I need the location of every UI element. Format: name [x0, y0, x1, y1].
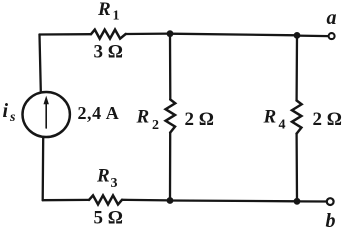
current source is [23, 92, 70, 137]
node junction top of R4 [294, 32, 301, 39]
svg-text:R: R [136, 107, 150, 128]
node junction bottom of R4 [294, 198, 301, 205]
svg-text:2 Ω: 2 Ω [185, 109, 214, 130]
wire top-right segment [170, 34, 297, 36]
svg-text:1: 1 [113, 9, 120, 24]
wire to terminal b [297, 200, 326, 202]
resistor R4 [292, 101, 302, 134]
current source arrow [45, 102, 47, 128]
svg-text:R: R [97, 0, 111, 20]
wire top-middle segment [126, 32, 170, 35]
wire bottom-middle segment [122, 199, 170, 202]
svg-text:2: 2 [152, 118, 159, 133]
svg-text:R: R [263, 107, 277, 128]
wire to terminal a [297, 34, 328, 37]
svg-text:3 Ω: 3 Ω [94, 42, 123, 63]
svg-text:a: a [327, 7, 337, 29]
svg-text:2 Ω: 2 Ω [313, 109, 342, 130]
svg-text:4: 4 [279, 118, 286, 133]
wire R4 branch upper [295, 35, 298, 100]
resistor R3 [89, 195, 122, 204]
svg-text:i: i [3, 100, 9, 122]
svg-text:2,4 A: 2,4 A [78, 103, 120, 123]
svg-text:3: 3 [111, 176, 118, 191]
wire left vertical lower [42, 137, 45, 200]
terminal a [329, 33, 335, 39]
wire R4 branch lower [295, 134, 298, 202]
node junction bottom of R2 [167, 197, 174, 204]
wire left vertical upper [40, 35, 41, 92]
svg-text:R: R [96, 166, 110, 187]
resistor R2 [166, 100, 176, 133]
terminal b [327, 198, 334, 205]
svg-text:5 Ω: 5 Ω [94, 208, 123, 229]
wire bottom-right segment [170, 199, 297, 202]
node junction top of R2 [167, 30, 174, 37]
resistor R1 [91, 30, 126, 39]
svg-text:b: b [326, 210, 336, 232]
wire R2 branch upper [169, 34, 172, 100]
wire top-left segment [40, 33, 92, 36]
wire R2 branch lower [169, 133, 171, 201]
svg-text:s: s [9, 110, 16, 125]
wire bottom-left segment [43, 199, 89, 202]
